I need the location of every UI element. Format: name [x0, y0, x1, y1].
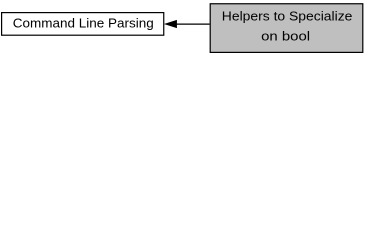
- svg-text:Helpers to Specialize: Helpers to Specialize: [222, 9, 353, 24]
- svg-text:Command Line Parsing: Command Line Parsing: [13, 15, 154, 30]
- wire: edge from grey node to Command Line Parsing: [176, 23, 209, 25]
- node: Helpers to Specialize on bool (current node, grey fill): [210, 4, 363, 53]
- node: Command Line Parsing: [2, 13, 164, 36]
- arrowhead pointing at Command Line Parsing: [165, 20, 177, 27]
- svg-text:on bool: on bool: [261, 28, 310, 43]
